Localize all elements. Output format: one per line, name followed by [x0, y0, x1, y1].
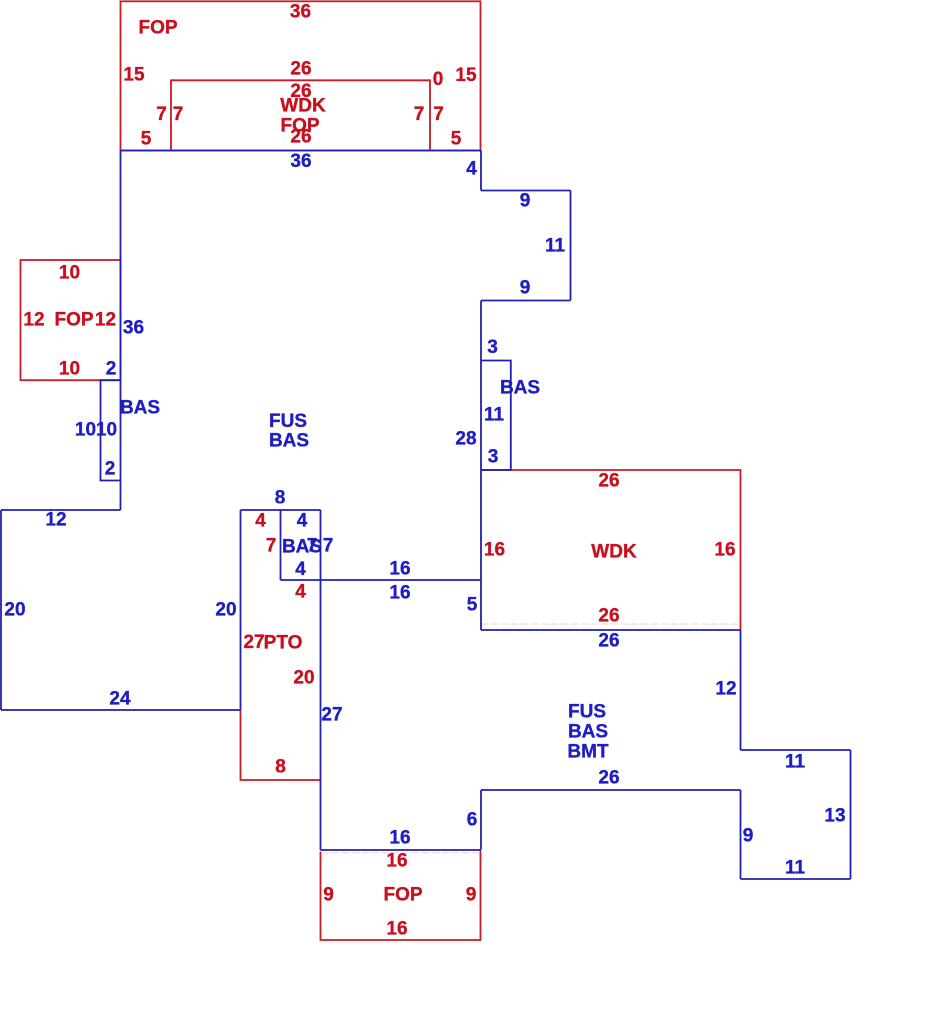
- svg-text:FOP: FOP: [54, 310, 93, 331]
- svg-text:16: 16: [389, 828, 410, 849]
- svg-text:7: 7: [323, 536, 334, 557]
- boundary segment 11: [570, 191, 572, 301]
- svg-text:4: 4: [255, 511, 266, 532]
- inner WDK FOP room outline: [171, 80, 430, 150]
- svg-text:FOP: FOP: [383, 885, 422, 906]
- svg-text:20: 20: [215, 600, 236, 621]
- boundary segment 16 bottom: [321, 849, 482, 851]
- svg-text:26: 26: [598, 471, 619, 492]
- boundary segment top 36: [121, 150, 482, 152]
- svg-text:FUS: FUS: [568, 702, 606, 723]
- blue dimension labels: [4, 151, 845, 879]
- red outlines group: [21, 1, 741, 940]
- svg-text:16: 16: [386, 851, 407, 872]
- svg-text:4: 4: [295, 559, 306, 580]
- blue parcel boundary group: [1, 151, 851, 880]
- svg-text:7: 7: [266, 536, 277, 557]
- svg-text:36: 36: [290, 151, 311, 172]
- svg-text:13: 13: [824, 806, 845, 827]
- svg-text:16: 16: [389, 583, 410, 604]
- svg-text:10: 10: [59, 263, 80, 284]
- svg-text:BMT: BMT: [567, 742, 609, 763]
- svg-text:36: 36: [123, 318, 144, 339]
- svg-text:4: 4: [295, 582, 306, 603]
- svg-text:5: 5: [467, 595, 478, 616]
- PTO room visible red edges: [241, 710, 321, 780]
- svg-text:9: 9: [520, 191, 531, 212]
- WDK room faint bottom edge: [481, 623, 740, 625]
- svg-text:10: 10: [59, 359, 80, 380]
- svg-text:2: 2: [106, 359, 117, 380]
- svg-text:36: 36: [290, 2, 311, 23]
- boundary segment 36 left: [120, 151, 122, 511]
- boundary segment 24: [1, 709, 241, 711]
- svg-text:26: 26: [290, 59, 311, 80]
- boundary segment 4: [480, 151, 482, 191]
- svg-text:28: 28: [455, 429, 476, 450]
- svg-text:4: 4: [297, 511, 308, 532]
- svg-text:7: 7: [433, 104, 444, 125]
- boundary segment 28: [480, 301, 482, 631]
- svg-text:7: 7: [156, 104, 167, 125]
- svg-text:12: 12: [45, 510, 66, 531]
- svg-text:16: 16: [714, 540, 735, 561]
- boundary segment 27: [320, 510, 322, 850]
- svg-text:WDK: WDK: [280, 96, 326, 117]
- BAS annex outline middle: [280, 510, 282, 580]
- svg-text:12: 12: [23, 310, 44, 331]
- boundary segment 11 upper right: [741, 749, 851, 751]
- svg-text:15: 15: [455, 65, 477, 86]
- svg-text:12: 12: [715, 679, 736, 700]
- svg-text:3: 3: [487, 337, 498, 358]
- svg-text:BAS: BAS: [500, 378, 540, 399]
- svg-text:12: 12: [95, 310, 116, 331]
- svg-text:9: 9: [743, 826, 754, 847]
- svg-text:10: 10: [75, 420, 96, 441]
- svg-text:20: 20: [293, 668, 314, 689]
- boundary segment 20 left: [0, 510, 2, 710]
- svg-text:26: 26: [598, 768, 619, 789]
- BAS annex outline left: [101, 380, 121, 480]
- BAS annex outline right: [481, 361, 511, 471]
- boundary segment 12: [740, 630, 742, 750]
- svg-text:8: 8: [275, 757, 286, 778]
- svg-text:PTO: PTO: [264, 633, 303, 654]
- svg-text:9: 9: [323, 885, 334, 906]
- svg-text:16: 16: [386, 919, 407, 940]
- svg-text:11: 11: [545, 236, 566, 257]
- svg-text:16: 16: [389, 559, 410, 580]
- svg-text:11: 11: [484, 405, 505, 426]
- boundary segment 6: [480, 790, 482, 849]
- boundary segment 16 middle: [281, 579, 482, 581]
- svg-text:3: 3: [488, 447, 499, 468]
- boundary segment 13: [850, 750, 852, 879]
- svg-text:8: 8: [275, 488, 286, 509]
- boundary segment 11 lower right: [741, 878, 851, 880]
- svg-text:15: 15: [123, 65, 145, 86]
- svg-text:7: 7: [414, 104, 425, 125]
- svg-text:4: 4: [466, 159, 477, 180]
- svg-text:FOP: FOP: [138, 18, 177, 39]
- svg-text:0: 0: [433, 69, 444, 90]
- svg-text:27: 27: [243, 632, 264, 653]
- boundary segment 9 top: [481, 190, 571, 192]
- boundary segment 26 under WDK: [481, 629, 741, 631]
- svg-text:26: 26: [290, 127, 311, 148]
- svg-text:9: 9: [466, 885, 477, 906]
- svg-text:7: 7: [173, 104, 184, 125]
- svg-text:11: 11: [785, 858, 806, 879]
- svg-text:9: 9: [520, 278, 531, 299]
- svg-text:10: 10: [96, 420, 117, 441]
- WDK room outline right: [481, 470, 741, 630]
- svg-text:26: 26: [598, 606, 619, 627]
- boundary segment 9 right: [740, 790, 742, 879]
- svg-text:BAS: BAS: [269, 431, 309, 452]
- boundary segment 26 middle: [481, 789, 741, 791]
- top FOP room outline: [121, 1, 481, 150]
- boundary segment 9 lower: [481, 300, 571, 302]
- svg-text:11: 11: [785, 752, 806, 773]
- svg-text:5: 5: [451, 129, 462, 150]
- svg-text:FUS: FUS: [269, 411, 307, 432]
- red dimension labels: [23, 2, 735, 940]
- svg-text:16: 16: [484, 540, 505, 561]
- boundary segment 12 left: [1, 509, 121, 511]
- bottom FOP room outline: [321, 849, 481, 940]
- svg-text:5: 5: [141, 129, 152, 150]
- svg-text:20: 20: [4, 600, 25, 621]
- svg-text:27: 27: [321, 705, 342, 726]
- svg-text:2: 2: [105, 459, 116, 480]
- svg-text:26: 26: [598, 631, 619, 652]
- svg-text:BAS: BAS: [568, 722, 608, 743]
- boundary segment 8: [241, 509, 321, 511]
- svg-text:6: 6: [467, 810, 478, 831]
- left FOP room outline: [21, 260, 121, 380]
- bottom FOP faint top edge: [322, 852, 479, 854]
- svg-text:BAS: BAS: [120, 398, 160, 419]
- svg-text:WDK: WDK: [591, 542, 637, 563]
- svg-text:24: 24: [109, 689, 131, 710]
- boundary segment 20 right: [240, 510, 242, 710]
- svg-text:7: 7: [307, 536, 318, 557]
